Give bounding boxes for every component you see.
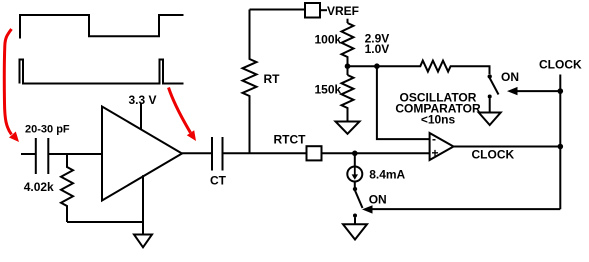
ground amp <box>134 235 152 248</box>
wire VREF to 100k <box>347 19 349 23</box>
op-amp U1 buffer <box>102 107 182 201</box>
wire clock vertical <box>559 75 561 210</box>
wire current source top <box>354 153 356 166</box>
junction clock output <box>558 144 564 150</box>
svg-text:4.02k: 4.02k <box>24 180 54 194</box>
red arrow to CT <box>169 88 191 133</box>
resistor 4.02k <box>61 154 73 222</box>
svg-text:150k: 150k <box>315 83 342 97</box>
svg-text:CLOCK: CLOCK <box>539 58 582 72</box>
svg-text:<10ns: <10ns <box>421 113 456 127</box>
wire VREF square to label <box>320 9 327 11</box>
switch top blade <box>490 78 499 95</box>
svg-text:CT: CT <box>210 174 227 188</box>
current source arrow <box>354 168 356 176</box>
capacitor CT <box>212 137 223 171</box>
junction tap right <box>374 63 380 69</box>
terminal VREF square <box>305 3 320 18</box>
wire top arrow <box>517 90 560 92</box>
wire divider tap <box>348 65 377 67</box>
wire amp output <box>182 152 212 154</box>
ground bottom switch <box>343 224 367 239</box>
svg-text:3.3 V: 3.3 V <box>129 93 157 107</box>
resistor 150k <box>342 75 354 122</box>
switch top pivot dot <box>488 74 492 78</box>
switch top contact dot <box>488 95 492 99</box>
wire tap to comparator minus <box>377 66 430 139</box>
junction RTCT current source <box>352 151 358 157</box>
wire feedback bottom <box>67 221 143 223</box>
svg-text:RT: RT <box>264 72 281 86</box>
wire feedback vertical <box>142 175 144 234</box>
wire cap to amp input <box>48 153 102 155</box>
svg-text:1.0V: 1.0V <box>365 42 390 56</box>
terminal RTCT square <box>307 146 322 160</box>
arrowhead top ON <box>507 87 518 95</box>
svg-text:CLOCK: CLOCK <box>472 148 515 162</box>
svg-text:ON: ON <box>369 193 387 207</box>
svg-text:RTCT: RTCT <box>274 132 307 146</box>
svg-text:ON: ON <box>501 70 519 84</box>
resistor 100k <box>342 23 354 75</box>
wire cap input stub <box>21 153 36 155</box>
svg-text:VREF: VREF <box>327 4 359 18</box>
svg-text:-: - <box>432 132 436 146</box>
switch bottom contact dot <box>353 214 357 218</box>
resistor hysteresis <box>377 61 490 74</box>
junction clock top <box>558 88 564 94</box>
wire bottom feedback <box>372 208 560 210</box>
capacitor 20-30pF <box>36 138 49 174</box>
resistor RT <box>243 10 257 154</box>
red arrow to 20-30pF <box>4 29 11 135</box>
ground top switch <box>479 113 501 126</box>
wire RTCT to comparator plus <box>322 152 430 154</box>
wire top switch to ground <box>489 99 491 113</box>
switch bottom blade <box>355 191 363 209</box>
wire CT to RTCT terminal <box>223 152 307 154</box>
wire current source to switch <box>354 182 356 188</box>
arrowhead bottom ON <box>362 205 373 213</box>
ground 150k <box>336 122 360 134</box>
wire RT top <box>250 9 306 11</box>
current source 8.4mA circle <box>347 167 362 182</box>
svg-text:+: + <box>432 146 439 160</box>
wire bottom switch to ground <box>354 218 356 225</box>
switch bottom pivot dot <box>353 187 357 191</box>
svg-text:100k: 100k <box>315 33 342 47</box>
svg-text:20-30 pF: 20-30 pF <box>25 124 70 136</box>
waveform sync pulses <box>20 60 184 84</box>
svg-text:8.4mA: 8.4mA <box>369 168 405 182</box>
wire 3.3V supply <box>140 104 142 130</box>
op-amp U2 oscillator comparator <box>430 133 454 160</box>
junction divider tap <box>345 63 351 69</box>
waveform square wave <box>20 15 184 39</box>
wire comparator output <box>454 146 561 148</box>
